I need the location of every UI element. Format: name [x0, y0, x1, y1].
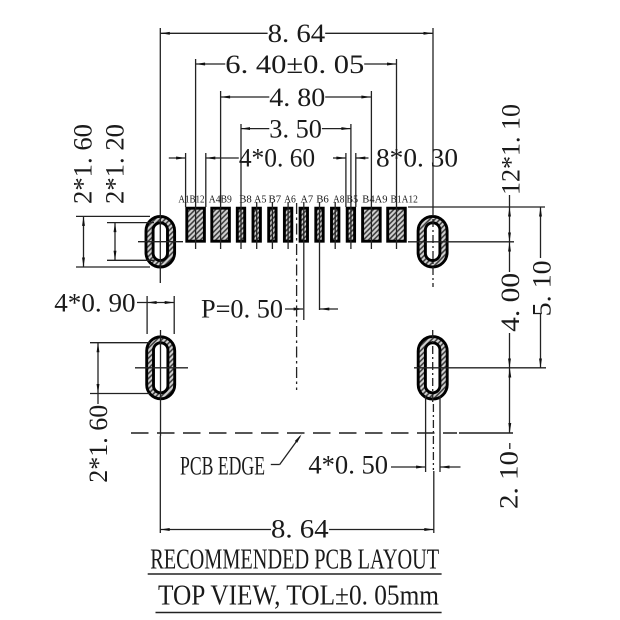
oval shell hole top-right inner	[425, 223, 440, 261]
dimension 4*0.50	[391, 466, 426, 468]
wire ext oval inner bottom	[107, 259, 154, 261]
wire ext oval inner top	[107, 222, 154, 224]
wire ext pad10 left edge	[345, 153, 347, 207]
svg-text:B7: B7	[269, 194, 282, 206]
svg-text:5. 10: 5. 10	[528, 260, 557, 316]
svg-text:P=0. 50: P=0. 50	[201, 295, 283, 324]
pad A4B9	[212, 208, 230, 241]
dimension 4*0.60	[169, 157, 186, 159]
dimension 3.50	[241, 128, 270, 130]
wire ext mid-left oval hole bottom	[90, 393, 150, 395]
pad B7	[269, 208, 276, 241]
svg-text:B6: B6	[316, 194, 329, 206]
dimension 2.10	[508, 368, 511, 378]
svg-text:8. 64: 8. 64	[271, 515, 329, 544]
dimension 4.00	[509, 333, 511, 433]
svg-text:4. 00: 4. 00	[496, 273, 525, 332]
pad A8	[332, 208, 339, 241]
wire ext pad10 right edge	[355, 153, 357, 207]
dimension 8.64 top	[160, 32, 267, 34]
svg-text:2. 10: 2. 10	[495, 451, 524, 509]
wire ext pad1 right edge	[205, 153, 207, 207]
dimension 8*0.30	[333, 157, 346, 159]
wire bottom-left extension line	[159, 436, 161, 533]
wire pad top extension line y=207	[408, 206, 545, 208]
wire mid-right oval centerline lower	[432, 404, 434, 470]
wire ext oval outer top	[76, 215, 150, 217]
dimension 2*1.60 top-left	[83, 216, 85, 267]
dimension 12*1.10	[509, 195, 511, 272]
wire top-left oval horizontal centerline	[138, 241, 183, 243]
svg-text:A1B12: A1B12	[178, 194, 204, 206]
pad B8	[237, 208, 244, 241]
oval shell hole mid-right outer	[418, 337, 447, 400]
svg-text:2*1. 20: 2*1. 20	[100, 124, 129, 204]
dimension 2*1.60 bottom-left	[97, 343, 99, 394]
pad B1A12	[388, 208, 406, 241]
wire ext oval outer bottom	[76, 266, 150, 268]
oval shell hole top-right outer	[418, 216, 447, 267]
pad A6	[284, 208, 291, 241]
dimension P=0.50	[285, 308, 303, 310]
svg-text:B5: B5	[347, 194, 359, 206]
wire title underline 1	[148, 573, 442, 575]
wire pad B5 centerline	[350, 124, 352, 249]
wire ext mid-right hole left edge	[425, 396, 427, 472]
wire ext mid-left oval left edge	[146, 296, 148, 334]
pad A1B12	[187, 208, 205, 241]
oval shell hole top-left inner	[153, 223, 167, 261]
wire ext mid-left oval right edge	[173, 296, 175, 334]
PCB edge dashed line	[131, 432, 457, 434]
svg-text:4*0. 60: 4*0. 60	[239, 144, 315, 173]
wire ext mid-right hole right edge	[439, 396, 441, 472]
svg-text:6. 40±0. 05: 6. 40±0. 05	[225, 50, 364, 79]
svg-text:12*1. 10: 12*1. 10	[497, 104, 526, 195]
oval shell hole mid-right inner	[425, 343, 440, 393]
wire mid oval center extension line y=368	[414, 367, 546, 369]
wire pad B7 centerline	[271, 202, 273, 249]
wire title underline 2	[156, 612, 442, 614]
wire left extension+centerline x=160	[159, 28, 161, 283]
wire pad B4A9 centerline	[370, 91, 372, 249]
dimension 4.80	[221, 96, 270, 98]
svg-text:RECOMMENDED PCB LAYOUT: RECOMMENDED PCB LAYOUT	[150, 545, 439, 576]
wire mid-left oval vertical centerline	[160, 330, 162, 436]
dimension 8.64 bottom	[160, 529, 271, 531]
wire right extension line x=433 upper	[432, 28, 434, 216]
wire pad A8 centerline	[334, 202, 336, 249]
wire pad A1B12 centerline	[195, 59, 197, 249]
pad B6	[316, 208, 323, 241]
oval shell hole mid-left inner	[154, 343, 168, 393]
pad A5	[253, 208, 260, 241]
dimension 6.40±0.05	[196, 63, 226, 65]
svg-text:2*1. 60: 2*1. 60	[84, 405, 113, 483]
wire bottom-right extension line	[433, 471, 435, 533]
wire lead to 2.10 text	[509, 443, 511, 449]
svg-text:A7: A7	[301, 194, 314, 206]
wire pad B8 centerline	[240, 124, 242, 249]
pad A7	[300, 208, 307, 241]
svg-text:A6: A6	[284, 194, 296, 206]
pad B4A9	[363, 208, 381, 241]
svg-text:TOP VIEW, TOL±0. 05mm: TOP VIEW, TOL±0. 05mm	[158, 581, 439, 612]
wire lead to 2*1.60 text	[97, 394, 99, 405]
svg-text:4*0. 50: 4*0. 50	[308, 451, 388, 480]
dimension 2*1.20	[114, 223, 116, 261]
dimension 4*0.90	[137, 302, 174, 304]
wire mid-left oval horizontal centerline	[135, 367, 188, 369]
wire mid-right oval vertical centerline	[432, 330, 434, 404]
svg-text:8. 64: 8. 64	[268, 19, 326, 48]
wire ext pad1 left edge	[185, 153, 187, 207]
oval shell hole top-left outer	[146, 216, 175, 267]
svg-text:4*0. 90: 4*0. 90	[54, 289, 135, 318]
svg-text:PCB EDGE: PCB EDGE	[180, 452, 265, 481]
wire PCB edge extension right	[459, 432, 513, 434]
wire pad A5 centerline	[256, 202, 258, 249]
svg-text:8*0. 30: 8*0. 30	[376, 144, 458, 173]
wire pad B6 centerline	[319, 202, 321, 310]
svg-text:3. 50: 3. 50	[269, 115, 322, 144]
oval shell hole mid-left outer	[147, 337, 175, 399]
wire pad A7 centerline	[303, 202, 305, 320]
leader PCB EDGE	[271, 464, 280, 466]
wire pad B1A12 centerline	[396, 59, 398, 249]
svg-text:4. 80: 4. 80	[269, 83, 325, 112]
svg-text:2*1. 60: 2*1. 60	[69, 124, 98, 204]
svg-text:B4A9: B4A9	[362, 194, 388, 206]
pad B5	[347, 208, 354, 241]
svg-text:B1A12: B1A12	[391, 194, 418, 206]
wire pad bottom extension line y=241.8	[408, 241, 514, 243]
wire top-right oval vertical centerline	[432, 219, 434, 287]
wire ext mid-left oval hole top	[90, 342, 150, 344]
dimension 5.10	[540, 207, 542, 258]
svg-text:A5: A5	[254, 194, 267, 206]
wire pad A6 centerline	[287, 202, 289, 249]
wire central axis dash-dot	[296, 203, 298, 390]
wire pad A4B9 centerline	[220, 91, 222, 249]
